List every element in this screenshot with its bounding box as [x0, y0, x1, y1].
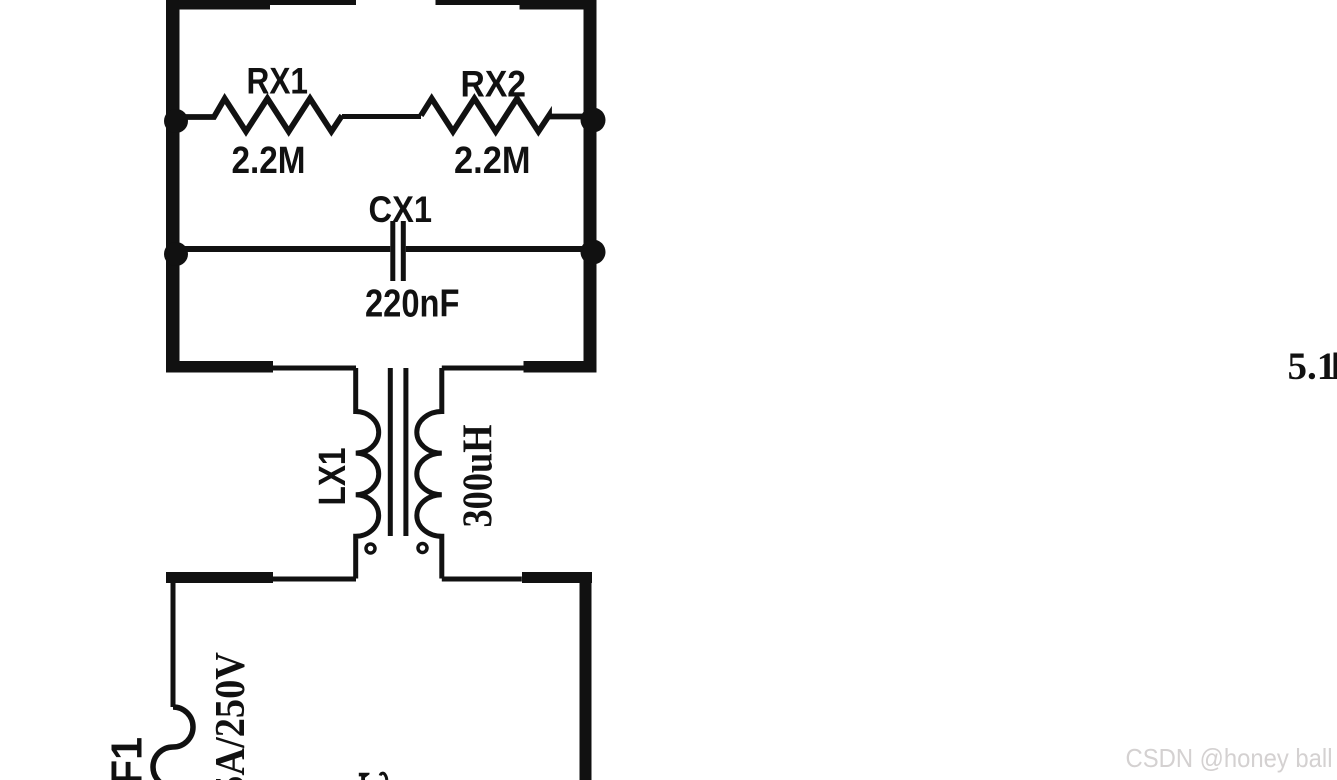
wire: top box bottom edge thin right segment — [442, 366, 524, 371]
wire: top box top edge thin right segment — [436, 0, 520, 5]
svg-text:2.2M: 2.2M — [232, 140, 306, 182]
svg-text:LX1: LX1 — [312, 448, 354, 506]
inductor LX1 left winding — [356, 368, 379, 579]
wire between RX1 and RX2 — [342, 114, 421, 119]
polarity dot right winding — [418, 544, 427, 553]
svg-text:300uH: 300uH — [456, 425, 502, 528]
wire: bottom box top edge thick left segment — [166, 572, 273, 583]
resistor RX1 — [180, 99, 342, 132]
wire: bottom box left edge wire — [171, 581, 176, 707]
wire: top box bottom edge thick right segment — [524, 361, 597, 373]
svg-text:CSDN @honey ball: CSDN @honey ball — [1126, 743, 1333, 773]
capacitor CX1 left wire — [180, 246, 390, 252]
wire: top box top edge thick right segment — [520, 0, 597, 10]
wire: bottom box right edge — [580, 572, 592, 780]
node junction left upper — [164, 109, 188, 133]
svg-text:RX2: RX2 — [461, 64, 527, 105]
svg-text:15A/250V: 15A/250V — [208, 652, 254, 780]
svg-text:RX1: RX1 — [247, 61, 309, 102]
wire: top box top edge thick left segment — [166, 0, 270, 10]
svg-text:5.1: 5.1 — [1288, 345, 1337, 388]
wire: top box left edge — [166, 0, 180, 372]
polarity dot left winding — [366, 544, 375, 553]
wire: top box right edge — [584, 0, 597, 372]
wire: top box bottom edge thin left segment — [273, 366, 356, 371]
resistor RX2 — [421, 99, 584, 132]
svg-text:F1: F1 — [103, 737, 152, 780]
wire: bottom box top edge thick right segment — [522, 572, 592, 583]
svg-text:CX1: CX1 — [369, 189, 433, 230]
wire: bottom box top edge thin right segment — [442, 577, 522, 582]
wire: top box top edge thin left segment — [270, 0, 356, 5]
transformer LX1 core lines — [388, 368, 393, 536]
node junction right lower — [581, 240, 606, 265]
wire: bottom box top edge thin left segment — [273, 577, 356, 582]
capacitor CX1 right wire — [406, 246, 584, 252]
inductor LX1 right winding — [417, 368, 442, 579]
partial glyph marks at bottom center (cut-off rotated label) — [359, 773, 370, 780]
svg-text:220nF: 220nF — [365, 282, 460, 325]
wire: top box bottom edge thick left segment — [166, 361, 273, 373]
svg-text:2.2M: 2.2M — [454, 140, 531, 182]
node junction left lower — [164, 242, 188, 266]
node junction right upper — [581, 108, 606, 133]
fuse F1 symbol — [153, 707, 193, 780]
capacitor CX1 plates — [390, 221, 395, 281]
